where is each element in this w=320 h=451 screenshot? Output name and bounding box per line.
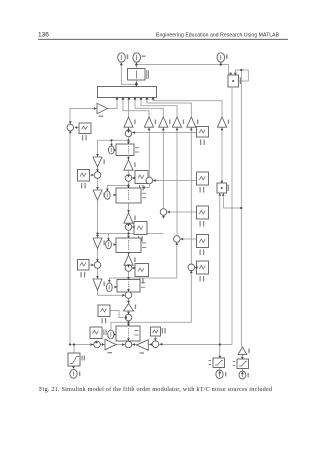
wire: mux port 141 fan to column x177 xyxy=(141,99,177,117)
bottom row sum SB1 xyxy=(94,341,101,348)
arrow N9 into integrator 5 xyxy=(154,338,157,341)
arrow N4 into SB1 xyxy=(95,341,98,344)
output port oval R xyxy=(239,371,249,379)
integrator 4 xyxy=(117,280,145,293)
product block P2 xyxy=(217,183,229,193)
arrow N10 lead into S7 xyxy=(153,179,156,182)
gain triangle feedback row b1 xyxy=(144,117,156,127)
noise block N8 xyxy=(98,305,110,324)
sum SL1 xyxy=(94,172,101,179)
wire: outport O2 / quantizer column into mux top xyxy=(135,63,137,87)
sum S1 xyxy=(125,130,132,137)
sum SL2 xyxy=(94,262,101,269)
bottom row sum SB3 xyxy=(152,341,159,348)
integrator 3 xyxy=(116,238,146,253)
coefficient triangle g1 (down) xyxy=(93,157,105,167)
wire: drop into noise oval 1 xyxy=(111,140,113,145)
noise block N14 xyxy=(197,127,209,146)
noise block N1 xyxy=(79,123,91,141)
arrow N8 into S6 xyxy=(124,316,127,319)
arrow into P2 top xyxy=(221,181,224,184)
noise oval integrator 4 xyxy=(106,283,112,292)
gain triangle c1 xyxy=(124,160,136,170)
wire: column x191 lower segment bending into sum S10 xyxy=(111,271,191,330)
gain triangle main column a1 xyxy=(124,117,136,127)
arrows into P1 top ports xyxy=(229,73,232,76)
sum S0 on left column xyxy=(67,124,74,131)
wire: saturation R to output port oval xyxy=(241,368,243,371)
arrow N6 into S3 xyxy=(132,226,135,229)
input source block xyxy=(68,353,85,366)
sum S12 xyxy=(188,264,195,271)
sum S11 xyxy=(174,236,181,243)
arrow oval into integrator 4 xyxy=(115,286,118,289)
noise block N6 xyxy=(134,222,147,242)
wire: noise N1 into sum S0 xyxy=(76,127,79,129)
wire: hairpin loop into product P1 second input xyxy=(235,70,248,81)
coefficient triangle g3 (down) xyxy=(93,238,105,249)
junction saturation column at row xyxy=(219,343,221,345)
wire: mux port 135 fan to column x163 xyxy=(135,99,163,117)
junction P2 stub at right column xyxy=(240,207,242,209)
noise block N10 xyxy=(197,172,209,193)
flow arrowheads on left chain xyxy=(96,154,125,297)
junction main column y272 xyxy=(127,321,129,323)
arrow S12 lead xyxy=(195,266,198,269)
wire: input feedback left column with top bend to gain input xyxy=(70,109,97,345)
integrator 1 xyxy=(116,144,139,156)
arrowhead into gain triangle input xyxy=(94,107,97,110)
wire: right feedback column to bottom-right DAC xyxy=(240,70,242,347)
bottom gain triangle right xyxy=(105,339,116,353)
wire: right column from product P1 output down to bottom row xyxy=(231,88,233,345)
bottom row sum SB2 xyxy=(125,341,132,348)
input port oval xyxy=(70,369,80,378)
noise block N4 xyxy=(90,327,107,339)
wire: mux port 153 fan to column x222 xyxy=(153,99,222,117)
junction hairpin xyxy=(240,69,242,71)
outport ellipse O2 xyxy=(133,53,146,62)
wire: column x163 branch down and left to left chain xyxy=(98,233,164,235)
quantizer block xyxy=(128,69,149,81)
noise block N12 xyxy=(197,235,209,256)
junction O3 tap xyxy=(220,63,222,65)
wire: mux port 147 fan to column x191 xyxy=(147,99,191,117)
arrows bottom row xyxy=(91,343,163,346)
arrow N5 into S2 xyxy=(132,177,135,180)
arrow into saturation L xyxy=(218,356,221,359)
flow arrowheads on main column xyxy=(127,130,130,341)
arrow N3 into SL2 xyxy=(91,264,94,267)
arrow oval into integrator 5 xyxy=(114,333,117,336)
noise block N9 xyxy=(151,327,166,336)
P2 bottom port arrows xyxy=(219,193,222,196)
noise block N3 xyxy=(78,260,90,278)
gain triangle c3 xyxy=(124,255,136,265)
wire: column x177 upper segment xyxy=(176,127,178,235)
noise oval integrator 3 xyxy=(106,240,112,248)
wire: input source block riser xyxy=(73,345,75,354)
junction O1 bend at mux column xyxy=(135,83,137,85)
integrator 2 xyxy=(116,188,146,203)
arrowhead into S7 xyxy=(142,186,145,189)
wire: noise N8 elbow into sum S10 xyxy=(110,311,123,318)
arrow quantizer into mux column xyxy=(135,82,138,85)
arrow up into S12 from below xyxy=(190,270,193,273)
junction bottom row left xyxy=(69,343,71,345)
arrowhead up into S11 xyxy=(175,242,178,245)
wire: column x163 upper segment xyxy=(162,127,164,208)
arrow into saturation R xyxy=(241,357,244,360)
DAC gain triangle R xyxy=(238,347,250,355)
gain triangle c2 xyxy=(124,213,136,223)
wire: quantizer output loop to product P1 xyxy=(136,65,228,75)
arrow into O3 xyxy=(219,63,222,66)
coefficient triangle g4 (down) xyxy=(93,279,105,290)
arrow oval into input block xyxy=(72,366,75,369)
wire: product P2 left output down to saturation L xyxy=(219,193,221,358)
junction left chain y232 xyxy=(96,232,98,234)
arrow saturation R into oval xyxy=(241,372,244,375)
arrow oval into integrator 1 xyxy=(114,149,117,152)
outport ellipse O1 xyxy=(118,53,129,62)
sum S4 xyxy=(125,265,132,272)
wire: noise N13 lead into sum S12 xyxy=(195,266,197,268)
saturation block R xyxy=(233,359,249,369)
noise oval integrator 2 xyxy=(104,191,110,199)
arrow saturation L into oval xyxy=(218,371,221,374)
arrow oval into integrator 3 xyxy=(114,243,117,246)
gain triangle c4 xyxy=(124,304,137,312)
arrow N11 lead into S9 xyxy=(167,211,170,214)
noise oval integrator 5 xyxy=(108,330,114,339)
noise block N11 xyxy=(197,206,209,227)
sum S7 xyxy=(146,177,153,184)
svg-text:Engineering Education and Rese: Engineering Education and Research Using… xyxy=(156,32,280,38)
gain triangle feedback row b5 xyxy=(217,117,229,127)
noise block N5 xyxy=(135,171,148,191)
mux block xyxy=(98,87,157,98)
wire: DAC R triangle to saturation block xyxy=(241,355,243,359)
gain triangle feedback row b3 xyxy=(172,117,184,127)
wire: noise N11 long lead into sum S9 xyxy=(167,211,196,213)
junction left chain tap xyxy=(127,139,129,141)
header rule xyxy=(38,38,288,40)
wire: main integrator column xyxy=(128,98,130,342)
svg-text:Fig. 21. Simulink model of the: Fig. 21. Simulink model of the fifth ord… xyxy=(39,386,273,393)
wire: left coefficient chain xyxy=(98,140,129,295)
wire: product P2 right output stub to right column xyxy=(223,193,241,208)
arrowhead into main column from x177 branch xyxy=(108,280,111,283)
integrator 5 xyxy=(116,326,140,341)
sum S6 xyxy=(125,314,132,321)
mux top input arrow xyxy=(135,84,138,87)
arrow N12 lead into S11 xyxy=(180,238,183,241)
wire: noise N12 lead into sum S11 xyxy=(181,238,197,240)
noise block N2 xyxy=(78,170,90,189)
junction input riser xyxy=(73,343,75,345)
sum S9 xyxy=(160,209,167,216)
outport ellipse O3 xyxy=(217,53,228,62)
input gain triangle xyxy=(97,103,108,117)
arrow N1 into S0 xyxy=(75,126,78,129)
arrow N7 into S4 xyxy=(132,267,135,270)
sum S3 xyxy=(125,224,132,231)
gain triangle feedback row b4 xyxy=(187,117,199,127)
saturation block L xyxy=(209,358,225,368)
arrows below feedback gain triangles xyxy=(127,128,223,131)
noise block N13 xyxy=(197,261,209,282)
wire: outport O1 drop and bend xyxy=(121,63,136,84)
wire: noise N14 lead into sum S1 xyxy=(132,132,196,134)
coefficient triangle g2 (down) xyxy=(93,190,105,200)
wire: mux port 123 fan to column x149 xyxy=(123,99,149,117)
arrow N2 into left column xyxy=(91,174,94,177)
arrow into O1 xyxy=(120,63,123,66)
noise oval integrator 1 xyxy=(108,146,114,154)
arrowhead into S0 from above xyxy=(69,121,72,124)
arrow oval into integrator 2 xyxy=(114,194,117,197)
wire: column x222 from gain triangle to product P2 xyxy=(221,127,223,183)
svg-text:136: 136 xyxy=(38,31,49,38)
wire: saturation L to output oval xyxy=(219,367,221,370)
wire: input gain output into mux port xyxy=(108,98,118,109)
wire: noise N9 drop into sum SB3 xyxy=(154,336,156,340)
gain triangle feedback row b2 xyxy=(159,117,171,127)
arrowhead N14 lead into S1 xyxy=(132,131,135,134)
wire: bottom signal row xyxy=(70,344,232,346)
sum S2 xyxy=(125,175,132,182)
wire: noise N10 long lead into sum S7 xyxy=(153,180,196,182)
arrow into O2 xyxy=(135,63,138,66)
sum S5 xyxy=(125,292,132,299)
bottom gain triangle left xyxy=(137,340,149,354)
noise block N7 xyxy=(135,264,149,284)
mux port arrows xyxy=(115,97,154,100)
wire: column x149 into sum S7 xyxy=(142,127,149,187)
wire: column x191 upper segment xyxy=(190,127,192,263)
output port oval L xyxy=(216,370,226,379)
product block P1 xyxy=(228,75,241,87)
wire: column x177 lower segment bending into main column xyxy=(109,242,177,281)
